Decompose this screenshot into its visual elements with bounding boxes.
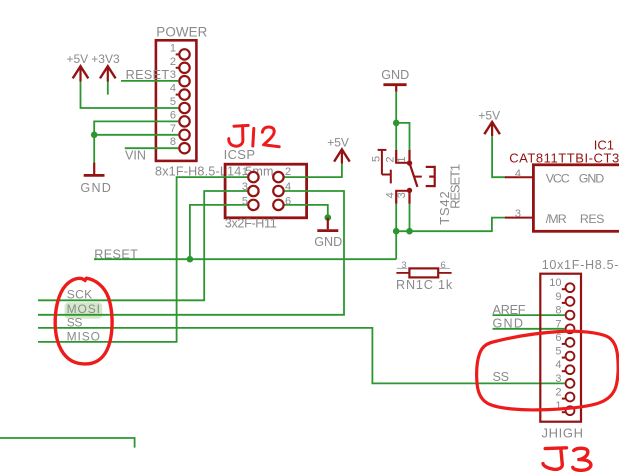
- svg-text:3: 3: [396, 192, 408, 198]
- net label GND (J3): [493, 317, 524, 331]
- junction switch bottom B: [406, 228, 413, 235]
- svg-text:2: 2: [285, 166, 291, 178]
- svg-text:1: 1: [396, 156, 408, 162]
- svg-text:RESET1: RESET1: [448, 164, 463, 209]
- annotation text J12: [229, 125, 279, 146]
- wire ICSP pin3 to SCK vertical: [38, 191, 247, 300]
- wire POWER pin7: [94, 134, 178, 136]
- svg-text:GND: GND: [314, 235, 342, 249]
- switch S1 TS42 RESET1: [378, 150, 435, 204]
- svg-text:+3V3: +3V3: [91, 52, 120, 66]
- svg-text:4: 4: [384, 192, 396, 198]
- label POWER: [156, 24, 207, 39]
- wire branch to switch pin1: [396, 123, 409, 150]
- svg-text:CAT811TTBI-CT3: CAT811TTBI-CT3: [509, 150, 619, 165]
- net label SS: [67, 315, 83, 329]
- wire +5V to POWER pin5: [81, 82, 179, 109]
- ground GND (ICSP): [314, 218, 342, 249]
- annotation circle around J3 pins: [477, 331, 618, 410]
- svg-text:GND: GND: [80, 181, 111, 195]
- wire switch pin4 down to junction: [395, 204, 397, 231]
- IC1 pin names /MR RES: [546, 212, 605, 226]
- supply +5V (left): [67, 52, 89, 81]
- svg-text:5: 5: [371, 156, 383, 162]
- wire switch pin3 down to junction: [409, 204, 411, 231]
- svg-text:5: 5: [170, 96, 176, 108]
- svg-text:+5V: +5V: [327, 135, 349, 149]
- svg-text:4: 4: [285, 181, 291, 193]
- wire +3V3 stub: [107, 82, 109, 95]
- junction ICSP GND: [325, 214, 332, 221]
- wire GND to J3 pin7: [493, 328, 565, 330]
- svg-text:RESET: RESET: [126, 68, 170, 82]
- wire ICSP pin4 to MOSI: [38, 191, 344, 315]
- net label MISO: [67, 329, 100, 343]
- wire SS net to J3 pin3: [38, 328, 565, 384]
- svg-text:3: 3: [242, 181, 248, 193]
- svg-text:6: 6: [285, 195, 291, 207]
- connector J3 JHIGH body: [540, 274, 581, 422]
- annotation text J3: [543, 448, 591, 471]
- wire +5V to IC1 VCC: [492, 136, 506, 177]
- supply +5V (middle): [327, 135, 350, 163]
- junction RESET/ICSP pin5: [187, 256, 194, 263]
- svg-text:SS: SS: [493, 370, 510, 384]
- svg-text:+5V: +5V: [478, 109, 500, 123]
- svg-text:10: 10: [549, 277, 561, 289]
- net label SCK: [67, 287, 92, 301]
- svg-text:8: 8: [170, 136, 176, 148]
- label JHIGH: [542, 425, 584, 440]
- svg-text:GND: GND: [381, 68, 409, 82]
- label ICSP: [224, 147, 255, 162]
- svg-text:8: 8: [555, 305, 561, 317]
- svg-text:MOSI: MOSI: [67, 302, 100, 316]
- label 8x1F-H8.5-L14.5mm: [155, 165, 274, 179]
- wire POWER pin6: [94, 121, 178, 134]
- wire GND to switch: [395, 92, 397, 150]
- junction above switch: [393, 120, 400, 127]
- label TS42: [437, 191, 452, 225]
- svg-text:10x1F-H8.5-L14.5mm: 10x1F-H8.5-L14.5mm: [542, 258, 619, 272]
- net label SS (J3): [493, 370, 510, 384]
- svg-text:4: 4: [170, 83, 176, 95]
- IC1 pin names VCC GND: [546, 171, 605, 185]
- wire ICSP pin6 to GND: [285, 205, 328, 218]
- svg-text:2: 2: [170, 56, 176, 68]
- net label MOSI: [67, 302, 100, 316]
- svg-text:/MR: /MR: [546, 212, 567, 226]
- switch pin numbers 5 2 1 4 3: [371, 156, 408, 199]
- svg-text:POWER: POWER: [156, 24, 207, 39]
- net label RESET (top): [126, 68, 170, 82]
- IC U1 CAT811 body: [533, 165, 619, 232]
- IC1 pin 4 VCC stub: [505, 168, 534, 180]
- svg-text:2: 2: [384, 156, 396, 162]
- svg-text:VCC: VCC: [546, 171, 570, 185]
- svg-text:5: 5: [555, 346, 561, 358]
- label CAT811TTBI-CT3: [509, 150, 619, 165]
- net label VIN: [125, 149, 146, 163]
- svg-text:6: 6: [170, 109, 176, 121]
- svg-text:2: 2: [555, 387, 561, 399]
- connector J12 ICSP body: [225, 164, 307, 218]
- J3 pin numbers: [549, 277, 561, 412]
- wire ICSP pin5 to RESET vertical: [190, 205, 247, 259]
- label IC1: [594, 138, 614, 153]
- net label RESET (main): [94, 247, 138, 261]
- svg-text:7: 7: [170, 123, 176, 135]
- IC1 pin 3 /MR stub: [505, 208, 534, 220]
- svg-text:RES: RES: [580, 212, 605, 226]
- svg-text:3: 3: [401, 260, 406, 271]
- svg-text:1: 1: [242, 166, 248, 178]
- wire AREF to J3 pin8: [493, 314, 565, 316]
- wire ICSP pin2 to +5V: [285, 163, 342, 178]
- ICSP pin numbers: [242, 166, 291, 207]
- wire switch junction to RESET net: [395, 231, 397, 259]
- supply +3V3: [91, 52, 120, 81]
- connector POWER body: [156, 40, 197, 161]
- resistor RN1C: [396, 260, 453, 292]
- svg-text:3: 3: [170, 69, 176, 81]
- wire RESET net: [94, 258, 396, 260]
- svg-text:4: 4: [555, 359, 561, 371]
- svg-text:3x2F-H11: 3x2F-H11: [225, 216, 277, 230]
- ICSP pin circles: [248, 172, 283, 210]
- svg-text:6: 6: [440, 260, 445, 271]
- svg-text:9: 9: [555, 291, 561, 303]
- wire VIN to POWER pin8: [125, 147, 179, 149]
- junction switch bottom A: [393, 228, 400, 235]
- svg-text:3: 3: [515, 208, 521, 220]
- svg-text:MISO: MISO: [67, 329, 100, 343]
- label 10x1F-H8.5-: [542, 258, 619, 272]
- ground GND (left): [80, 163, 111, 195]
- svg-text:6: 6: [555, 332, 561, 344]
- wire frame corner (bottom left): [0, 438, 135, 448]
- label 3x2F-H11: [225, 216, 277, 230]
- svg-text:ICSP: ICSP: [224, 147, 255, 162]
- wire RESET to POWER pin3: [121, 80, 178, 82]
- svg-text:JHIGH: JHIGH: [542, 425, 584, 440]
- junction (GND node left): [91, 132, 98, 139]
- svg-text:3: 3: [555, 373, 561, 385]
- svg-text:GND: GND: [579, 171, 605, 185]
- ground GND (top, above switch): [381, 68, 409, 92]
- svg-text:SCK: SCK: [67, 287, 92, 301]
- wire switch junction to /MR: [396, 218, 506, 232]
- svg-text:1: 1: [170, 42, 176, 54]
- supply +5V (right): [478, 109, 500, 137]
- svg-text:7: 7: [555, 318, 561, 330]
- wire ICSP pin1 to MISO vertical: [38, 177, 247, 342]
- POWER pin circles and numbers: [170, 42, 190, 153]
- svg-text:RN1C 1k: RN1C 1k: [396, 278, 453, 292]
- annotation circle around SCK/MOSI/SS/MISO: [55, 278, 112, 364]
- MOSI highlight: [65, 302, 103, 318]
- net label AREF: [493, 303, 526, 317]
- svg-text:+5V: +5V: [67, 52, 89, 66]
- label RESET1: [448, 164, 463, 209]
- svg-text:5: 5: [242, 195, 248, 207]
- svg-text:VIN: VIN: [125, 149, 146, 163]
- J3 pin circles and nubs: [562, 283, 575, 415]
- svg-text:4: 4: [515, 168, 521, 180]
- wire to GND (left): [93, 135, 95, 163]
